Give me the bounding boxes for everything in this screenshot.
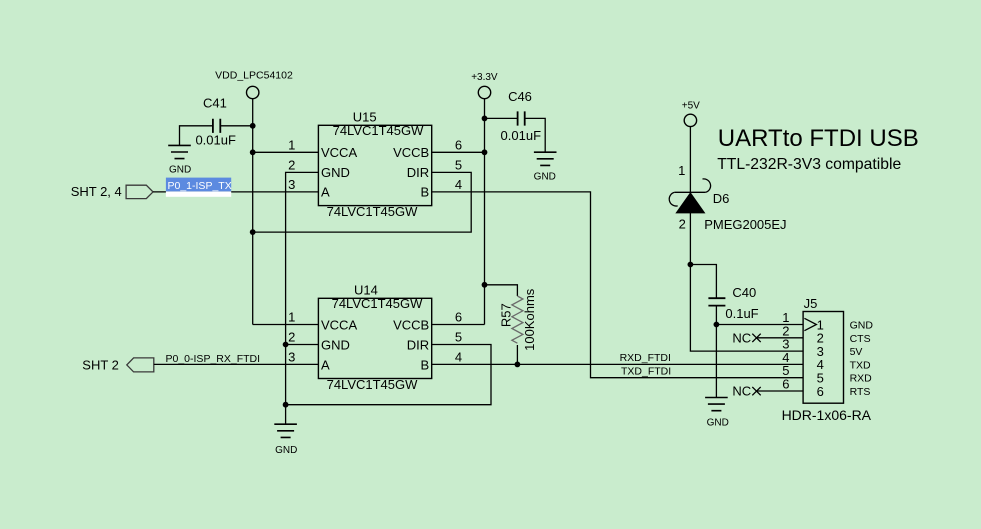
wire U15 pin4 B to TXD: [432, 192, 803, 378]
node junction 3.3V/R57: [482, 282, 488, 288]
svg-text:D6: D6: [713, 191, 730, 206]
node junction C40 tap: [688, 262, 694, 268]
svg-text:B: B: [421, 357, 430, 372]
wire C40 branch: [690, 265, 716, 298]
pin numbers U14 right: [455, 310, 462, 365]
node junction C40/J5 pin1: [714, 322, 720, 328]
svg-text:VCCB: VCCB: [393, 145, 429, 160]
svg-text:6: 6: [455, 310, 462, 325]
svg-text:UARTto FTDI USB: UARTto FTDI USB: [718, 125, 919, 152]
svg-text:0.01uF: 0.01uF: [501, 128, 542, 143]
ground under U14: [274, 424, 297, 456]
pin numbers J5 outside: [782, 310, 789, 392]
svg-text:2: 2: [288, 330, 295, 345]
node junction VDD/C41: [250, 123, 256, 129]
wire U14 pin2 GND: [286, 344, 319, 346]
svg-text:5: 5: [455, 157, 462, 172]
wire U15 pin2 GND net: [286, 172, 319, 404]
pin function labels J5: [850, 320, 874, 399]
svg-text:GND: GND: [707, 417, 729, 428]
wire J5 pin1: [716, 324, 803, 326]
node junction U14 pin2: [283, 342, 289, 348]
svg-text:P0_1-ISP_TX: P0_1-ISP_TX: [168, 180, 232, 192]
svg-text:GND: GND: [169, 164, 191, 175]
node junction VDD/DIR net: [250, 229, 256, 235]
ground under C40: [705, 398, 729, 429]
pin numbers U15 left: [288, 137, 295, 192]
svg-text:4: 4: [455, 177, 462, 192]
power symbol +3.3V: [471, 72, 498, 99]
wire RXD net U14 pin4 B to J5: [432, 363, 803, 365]
svg-text:RTS: RTS: [850, 386, 871, 398]
diode D6 schottky: [669, 163, 786, 232]
svg-text:J5: J5: [804, 296, 818, 311]
svg-text:VCCA: VCCA: [321, 317, 357, 332]
svg-text:2: 2: [288, 157, 295, 172]
svg-text:TXD: TXD: [850, 359, 871, 371]
svg-text:1: 1: [678, 163, 685, 178]
resistor R57 100Kohms: [485, 285, 537, 365]
svg-text:GND: GND: [275, 445, 297, 456]
svg-text:74LVC1T45GW: 74LVC1T45GW: [332, 296, 424, 311]
no-connect pin2 J5: [732, 330, 803, 345]
wire bottom GND bus: [286, 345, 491, 405]
svg-text:100Kohms: 100Kohms: [522, 288, 537, 351]
svg-text:TTL-232R-3V3 compatible: TTL-232R-3V3 compatible: [717, 156, 901, 173]
svg-text:3: 3: [288, 349, 295, 364]
svg-text:DIR: DIR: [407, 337, 429, 352]
power symbol +5V: [682, 100, 700, 126]
wire +5V to D6: [689, 127, 691, 193]
wire net P0_0-ISP_RX_FTDI to U14 pin3 A: [154, 363, 319, 365]
svg-text:74LVC1T45GW: 74LVC1T45GW: [333, 123, 425, 138]
svg-text:+3.3V: +3.3V: [471, 72, 498, 83]
svg-text:74LVC1T45GW: 74LVC1T45GW: [327, 204, 419, 219]
power symbol VDD_LPC54102: [215, 70, 293, 99]
svg-text:GND: GND: [321, 165, 350, 180]
svg-text:6: 6: [817, 384, 824, 399]
svg-text:A: A: [321, 185, 330, 200]
svg-text:74LVC1T45GW: 74LVC1T45GW: [327, 377, 419, 392]
capacitor C40: [708, 285, 758, 321]
svg-text:CTS: CTS: [850, 333, 871, 345]
svg-text:C41: C41: [203, 96, 227, 111]
svg-text:NC: NC: [732, 330, 751, 345]
svg-text:A: A: [321, 357, 330, 372]
svg-text:C40: C40: [732, 285, 756, 300]
pin numbers U14 left: [288, 310, 295, 365]
svg-text:VCCB: VCCB: [393, 317, 429, 332]
node junction 3.3V/U15 VCCB: [482, 149, 488, 155]
svg-text:0.01uF: 0.01uF: [195, 133, 236, 148]
svg-text:0.1uF: 0.1uF: [725, 306, 758, 321]
node junction 3.3V/C46: [482, 116, 488, 122]
svg-text:SHT 2: SHT 2: [82, 357, 119, 372]
wire VDD rail vertical: [252, 99, 254, 325]
sheet port SHT 2, 4: [71, 184, 153, 199]
capacitor C41: [180, 96, 253, 148]
ground under C41: [168, 145, 191, 175]
no-connect pin6 J5: [732, 384, 803, 399]
svg-text:GND: GND: [850, 320, 874, 332]
pin numbers J5 inside: [817, 317, 824, 399]
wire U14 pin6 VCCB: [432, 324, 485, 326]
svg-text:C46: C46: [508, 89, 532, 104]
svg-text:R57: R57: [499, 303, 514, 327]
svg-text:NC: NC: [732, 384, 751, 399]
pin1 mark J5: [804, 318, 816, 330]
svg-text:PMEG2005EJ: PMEG2005EJ: [704, 217, 786, 232]
pin numbers U15 right: [455, 137, 462, 192]
svg-text:1: 1: [288, 310, 295, 325]
wire D6 to J5 pin3 5V: [690, 213, 803, 351]
svg-text:5: 5: [455, 330, 462, 345]
svg-text:+5V: +5V: [682, 100, 700, 111]
wire +3.3V rail: [484, 99, 486, 325]
svg-text:GND: GND: [534, 171, 556, 182]
op IC U15 74LVC1T45GW: [318, 110, 431, 220]
wire U14 pin1 VCCA: [253, 324, 319, 326]
wire U15 pin5 DIR net: [253, 172, 472, 232]
svg-text:SHT 2, 4: SHT 2, 4: [71, 184, 122, 199]
svg-text:DIR: DIR: [407, 165, 429, 180]
connector J5 HDR-1x06-RA: [782, 296, 872, 423]
svg-text:6: 6: [455, 137, 462, 152]
svg-text:5V: 5V: [850, 346, 863, 358]
wire U15 pin1 VCCA: [253, 151, 319, 153]
op IC U14 74LVC1T45GW: [318, 283, 431, 393]
svg-text:2: 2: [679, 216, 686, 231]
sheet port SHT 2: [82, 357, 154, 372]
net label P0_1-ISP_TX selected: [166, 178, 232, 197]
svg-text:VCCA: VCCA: [321, 145, 357, 160]
svg-text:RXD_FTDI: RXD_FTDI: [620, 352, 671, 364]
capacitor C46: [485, 89, 546, 152]
wire net P0_1-ISP_TX to U15 pin3 A: [153, 191, 318, 193]
node junction R57 bottom: [515, 362, 521, 368]
svg-text:GND: GND: [321, 337, 350, 352]
wire U15 pin6 VCCB: [432, 151, 485, 153]
svg-text:HDR-1x06-RA: HDR-1x06-RA: [782, 407, 872, 423]
svg-text:VDD_LPC54102: VDD_LPC54102: [215, 70, 293, 82]
svg-text:6: 6: [782, 377, 789, 392]
svg-text:P0_0-ISP_RX_FTDI: P0_0-ISP_RX_FTDI: [166, 353, 261, 365]
svg-text:3: 3: [288, 177, 295, 192]
ground under C46: [534, 152, 557, 182]
svg-text:B: B: [421, 185, 430, 200]
svg-text:1: 1: [288, 137, 295, 152]
wire C40 bottom to GND: [715, 306, 717, 397]
svg-text:TXD_FTDI: TXD_FTDI: [621, 365, 671, 377]
node junction bottom GND: [283, 402, 289, 408]
wire GND stub U14: [285, 405, 287, 424]
node junction VDD/U15 pin1: [250, 149, 256, 155]
svg-text:RXD: RXD: [850, 373, 873, 385]
svg-text:4: 4: [455, 349, 462, 364]
